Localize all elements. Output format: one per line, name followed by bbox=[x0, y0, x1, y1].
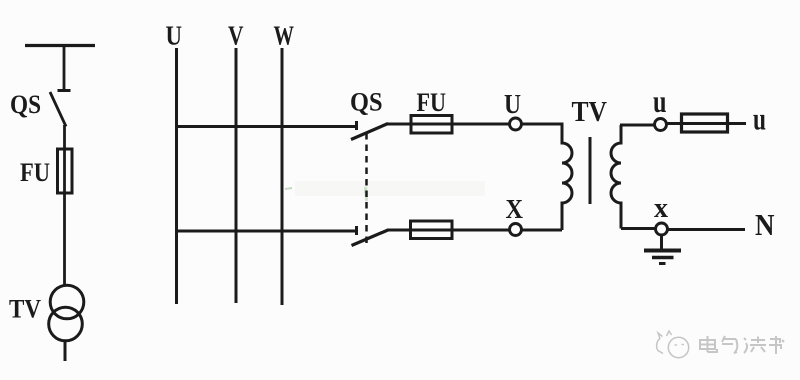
green smudge streak bbox=[365, 187, 366, 201]
watermark text qi bbox=[722, 336, 737, 353]
terminal x circle bbox=[656, 223, 668, 235]
ground bar 2 bbox=[652, 256, 674, 260]
svg-text:TV: TV bbox=[9, 295, 41, 324]
switch QS2 bottom fixed contact bbox=[355, 226, 358, 235]
wire TV1 bottom stub bbox=[64, 341, 67, 362]
switch QS2 linkage dashed bbox=[365, 133, 368, 243]
terminal X circle bbox=[510, 224, 522, 236]
svg-text:u: u bbox=[753, 101, 766, 137]
transformer TV1 upper winding circle bbox=[50, 285, 84, 319]
switch QS2 top blade bbox=[351, 124, 388, 140]
faint watermark smear band bbox=[295, 181, 485, 196]
wire secondary top to terminal u bbox=[620, 124, 655, 127]
phase line U bbox=[175, 48, 178, 304]
svg-text:FU: FU bbox=[20, 158, 50, 187]
wire terminal x to ground bbox=[660, 234, 663, 249]
svg-text:U: U bbox=[504, 89, 521, 119]
svg-text:u: u bbox=[653, 83, 667, 119]
wire primary winding to terminal X bbox=[521, 229, 562, 232]
svg-text:TV: TV bbox=[572, 96, 608, 128]
watermark text dian bbox=[700, 336, 717, 352]
svg-text:QS: QS bbox=[350, 88, 383, 117]
ground bar 3 bbox=[659, 262, 666, 265]
wire terminal X to fuse FU3 to QS2 bbox=[387, 229, 510, 232]
svg-text:X: X bbox=[506, 194, 524, 224]
phase line W bbox=[281, 48, 284, 305]
wire bottom rail from U line to QS2 bbox=[176, 230, 355, 233]
transformer TV secondary winding bbox=[611, 125, 621, 229]
transformer TV primary winding bbox=[562, 124, 572, 230]
transformer TV1 lower winding circle bbox=[49, 307, 83, 341]
switch QS1 blade bbox=[50, 92, 66, 127]
fuse FU1 body bbox=[58, 149, 73, 193]
watermark text du bbox=[744, 337, 766, 354]
wire QS2 to fuse FU2 to terminal U bbox=[386, 123, 511, 126]
svg-text:x: x bbox=[654, 193, 668, 224]
svg-text:V: V bbox=[228, 21, 244, 51]
phase line V bbox=[235, 48, 238, 303]
fuse FU2 body bbox=[411, 116, 452, 134]
wire QS1 to FU1 bbox=[63, 125, 66, 150]
fuse FU3 body bbox=[411, 221, 453, 239]
watermark logo cat bbox=[657, 331, 689, 358]
switch QS1 fixed contact bbox=[58, 89, 71, 92]
green smudge dot bbox=[285, 188, 292, 189]
fuse FU4 body bbox=[682, 114, 728, 132]
svg-text:W: W bbox=[274, 21, 295, 51]
busbar bbox=[25, 44, 95, 47]
wire terminal x to N bbox=[667, 228, 745, 231]
watermark text shu bbox=[769, 336, 784, 354]
svg-text:FU: FU bbox=[417, 88, 447, 117]
svg-text:QS: QS bbox=[10, 90, 41, 119]
wire terminal U to primary winding bbox=[521, 123, 564, 126]
switch QS2 top fixed contact bbox=[355, 121, 358, 130]
wire top rail from U line to QS2 bbox=[176, 125, 355, 128]
switch QS2 bottom blade bbox=[352, 230, 389, 246]
terminal u circle bbox=[655, 119, 667, 131]
wire terminal u through fuse FU4 to output u bbox=[666, 122, 746, 125]
transformer TV core bbox=[589, 137, 592, 204]
ground bar 1 bbox=[644, 249, 681, 253]
terminal U circle bbox=[510, 118, 522, 130]
wire secondary bottom to terminal x bbox=[621, 227, 656, 230]
wire through fuse FU1 bbox=[63, 149, 66, 285]
svg-text:N: N bbox=[755, 207, 775, 242]
wire bus to QS1 bbox=[63, 46, 66, 91]
svg-text:U: U bbox=[166, 21, 183, 51]
